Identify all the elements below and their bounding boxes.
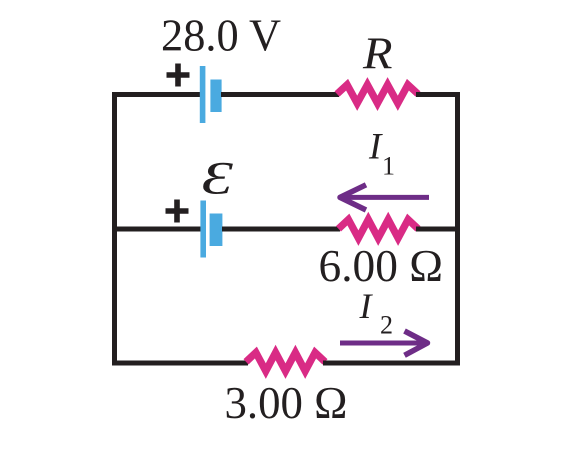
wire: bottom-left segment (to 3.00 ohm resistor)	[112, 361, 248, 366]
svg-text:3.00 Ω: 3.00 Ω	[225, 377, 348, 428]
svg-text:I: I	[359, 286, 374, 326]
battery EMF short plate	[210, 214, 223, 247]
polarity + of EMF battery	[166, 200, 189, 223]
wire: top middle segment (battery to resistor R)	[221, 92, 339, 97]
resistor R zigzag	[337, 85, 418, 104]
wire: middle segment (battery to 6.00 ohm resistor)	[222, 227, 340, 232]
wire: middle-right segment (resistor to right branch)	[416, 227, 460, 232]
battery EMF long plate	[200, 201, 206, 258]
svg-text:R: R	[362, 28, 393, 78]
wire: top-left segment (to battery)	[112, 92, 201, 97]
wire: top-right segment (resistor R to right corner)	[416, 92, 460, 97]
svg-text:1: 1	[382, 152, 395, 181]
polarity + of 28.0 V battery	[167, 64, 190, 87]
wire: right vertical branch	[455, 92, 460, 366]
resistor 6.00 ohm zigzag	[339, 220, 419, 239]
current arrow I2 (pointing right)	[340, 331, 428, 355]
svg-text:Ɛ: Ɛ	[202, 154, 234, 205]
wire: left vertical branch	[112, 92, 117, 366]
battery 28.0 V long plate	[200, 66, 206, 123]
svg-text:2: 2	[380, 311, 393, 340]
battery 28.0 V short plate	[210, 80, 221, 113]
wire: bottom-right segment (resistor to right corner)	[323, 361, 460, 366]
resistor 3.00 ohm zigzag	[246, 353, 325, 372]
svg-text:I: I	[368, 126, 383, 167]
svg-text:6.00 Ω: 6.00 Ω	[319, 240, 444, 291]
wire: middle-left segment (to EMF battery)	[112, 227, 201, 232]
svg-text:28.0 V: 28.0 V	[161, 11, 281, 61]
current arrow I1 (pointing left)	[340, 185, 429, 210]
